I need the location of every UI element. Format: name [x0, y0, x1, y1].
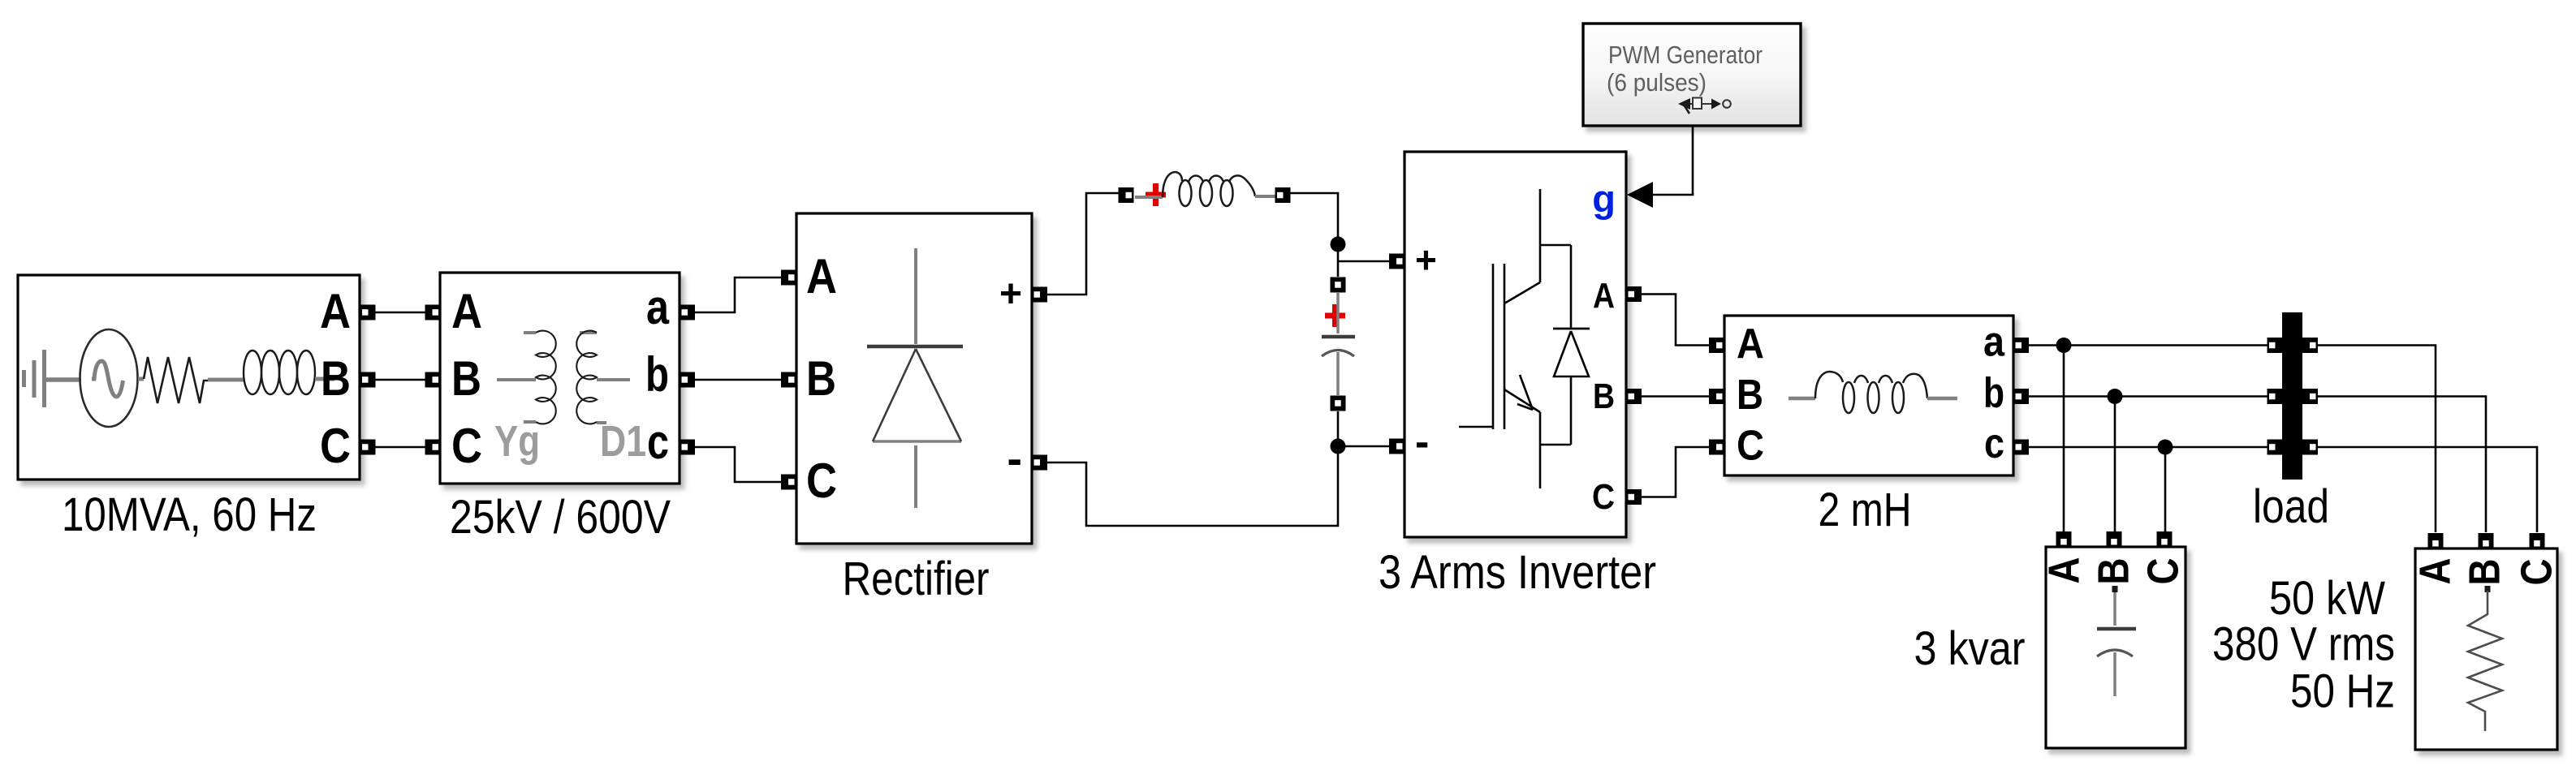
capacitor icon in 3 kvar block: [2097, 586, 2136, 696]
svg-text:+: +: [999, 273, 1022, 316]
transformer primary winding: [497, 331, 556, 424]
svg-text:C: C: [2139, 558, 2188, 585]
svg-text:b: b: [1983, 370, 2004, 417]
label 3 Arms Inverter: [1379, 546, 1656, 599]
label load: [2253, 480, 2329, 533]
load block port A: [2428, 533, 2444, 548]
bus port a left: [2267, 338, 2283, 353]
load bus bar: [2282, 312, 2302, 480]
wire phase B inverter-choke: [1642, 395, 1709, 398]
transformer label b: [645, 347, 669, 402]
source output port A: [360, 305, 376, 320]
rectifier label C: [806, 454, 837, 508]
rectifier label A: [806, 249, 837, 303]
svg-text:2 mH: 2 mH: [1819, 484, 1912, 536]
label 2 mH: [1819, 484, 1912, 536]
source port label B: [321, 351, 351, 406]
rectifier block box: [796, 213, 1032, 544]
DC bus capacitor C1: [1322, 293, 1355, 395]
label 50 Hz: [2290, 665, 2395, 718]
PWM block icon: [1678, 98, 1731, 114]
DC smoothing inductor coil: [1135, 172, 1276, 206]
capacitor measurement port bottom: [1331, 396, 1346, 411]
bus port b left: [2267, 389, 2283, 404]
3 arms inverter block box: [1405, 152, 1626, 537]
bus port c left: [2267, 440, 2283, 455]
transformer input port C: [425, 440, 441, 455]
wire rectifier + to inductor: [1047, 193, 1119, 295]
svg-text:50 Hz: 50 Hz: [2290, 665, 2395, 718]
transformer label c: [647, 415, 669, 469]
label 25kV / 600V: [450, 491, 671, 544]
svg-text:25kV / 600V: 25kV / 600V: [450, 491, 671, 544]
svg-text:B: B: [1593, 376, 1615, 416]
PWM Generator block box: [1583, 24, 1801, 126]
source port label A: [320, 284, 351, 338]
svg-text:+: +: [1415, 239, 1437, 281]
svg-text:g: g: [1592, 177, 1616, 220]
svg-text:Yg: Yg: [494, 417, 540, 466]
svg-text:b: b: [645, 347, 669, 402]
svg-text:A: A: [2040, 557, 2089, 584]
stub phase c to filter: [2164, 447, 2167, 532]
series inductor L of source impedance: [208, 351, 334, 394]
rectifier label B: [806, 351, 836, 406]
svg-text:A: A: [2411, 558, 2460, 585]
capacitor measurement port top: [1331, 277, 1346, 293]
transformer input port B: [425, 372, 441, 388]
label 3 kvar: [1914, 622, 2026, 675]
choke label B: [1737, 372, 1763, 419]
wire phase A source-transformer: [375, 312, 425, 314]
svg-text:load: load: [2253, 480, 2329, 533]
svg-text:(6 pulses): (6 pulses): [1607, 69, 1707, 97]
PWM Generator text: [1608, 41, 1763, 69]
svg-text:B: B: [2461, 559, 2509, 586]
wire inductor to DC bus corner: [1290, 193, 1338, 277]
AC voltage source symbol (ellipse + sine): [80, 329, 138, 427]
transformer label A: [451, 284, 482, 338]
inverter label +: [1415, 239, 1437, 281]
svg-text:B: B: [1737, 372, 1763, 419]
junction node phase a: [2056, 338, 2072, 353]
wire phase C source-transformer: [375, 446, 425, 449]
choke label b: [1983, 370, 2004, 417]
svg-text:3 Arms Inverter: 3 Arms Inverter: [1379, 546, 1656, 599]
load block rotated label C: [2513, 559, 2561, 586]
transformer label B: [451, 351, 481, 406]
gate arrowhead: [1627, 182, 1653, 208]
transformer label C: [451, 419, 482, 473]
wire phase a choke-load: [2029, 346, 2436, 533]
load block rotated label B: [2461, 559, 2509, 586]
inverter output port B: [1626, 389, 1642, 404]
svg-text:-: -: [1415, 419, 1429, 466]
inverter label C: [1592, 477, 1615, 517]
choke output port c: [2013, 440, 2029, 455]
svg-text:B: B: [806, 351, 836, 406]
wire phase c transformer-rectifier: [695, 447, 781, 482]
wire phase c choke-load: [2029, 447, 2537, 532]
svg-text:C: C: [1592, 477, 1615, 517]
source output port C: [360, 440, 376, 455]
inverter label B: [1593, 376, 1615, 416]
inverter input port -: [1389, 439, 1405, 454]
transformer output port c: [680, 440, 695, 455]
capacitor bank rotated label C: [2139, 558, 2188, 585]
source output port B: [360, 372, 376, 388]
bus port b right: [2302, 389, 2318, 404]
IGBT symbol inside inverter: [1459, 189, 1571, 488]
svg-text:A: A: [451, 284, 482, 338]
capacitor bank rotated label B: [2090, 558, 2138, 585]
svg-text:c: c: [1984, 420, 2004, 467]
svg-text:380 V rms: 380 V rms: [2212, 618, 2395, 671]
svg-text:a: a: [1983, 319, 2005, 366]
stub phase a to filter: [2063, 346, 2065, 533]
inverter gate label g: [1592, 177, 1616, 220]
svg-text:D1: D1: [600, 417, 646, 466]
svg-text:A: A: [806, 249, 837, 303]
choke label C: [1737, 423, 1764, 470]
wire phase b transformer-rectifier: [695, 379, 781, 381]
capacitor bank port B: [2107, 531, 2122, 547]
load block port B: [2479, 533, 2494, 548]
rectifier label -: [1007, 432, 1022, 484]
winding config label D1: [600, 417, 646, 466]
label Rectifier: [843, 553, 990, 605]
svg-text:B: B: [2090, 558, 2138, 585]
choke output port a: [2013, 338, 2029, 353]
wire phase b choke-load: [2029, 397, 2486, 533]
svg-text:C: C: [2513, 559, 2561, 586]
series inductor measurement port right: [1275, 187, 1291, 203]
wire rectifier - return rail: [1047, 446, 1338, 526]
junction node on DC- rail: [1331, 439, 1346, 454]
winding config label Yg: [494, 417, 540, 466]
rectifier label +: [999, 273, 1022, 316]
svg-text:C: C: [806, 454, 837, 508]
inverter label A: [1593, 276, 1615, 316]
svg-text:3 kvar: 3 kvar: [1914, 622, 2026, 675]
transformer output port a: [680, 305, 695, 320]
svg-text:B: B: [451, 351, 481, 406]
rectifier input port B: [781, 372, 796, 388]
svg-text:C: C: [1737, 423, 1764, 470]
choke label a: [1983, 319, 2005, 366]
red voltage-measurement + marker: [1325, 304, 1345, 327]
svg-text:C: C: [451, 419, 482, 473]
svg-text:a: a: [646, 280, 670, 334]
inverter input port +: [1389, 254, 1405, 269]
red current-measurement + marker: [1146, 183, 1166, 206]
inverter output port A: [1626, 286, 1642, 302]
junction node on DC+ rail: [1331, 237, 1346, 252]
transformer secondary winding: [576, 331, 630, 424]
wire phase C inverter-choke: [1642, 447, 1709, 497]
svg-text:A: A: [320, 284, 351, 338]
ground symbol inside source: [24, 350, 82, 407]
transformer input port A: [425, 305, 441, 320]
choke input port A: [1709, 338, 1724, 353]
svg-text:c: c: [647, 415, 669, 469]
choke output port b: [2013, 389, 2029, 404]
svg-text:Rectifier: Rectifier: [843, 553, 990, 605]
wire capacitor to DC- rail: [1337, 411, 1340, 439]
label 10MVA, 60 Hz: [62, 488, 317, 541]
load block rotated label A: [2411, 558, 2460, 585]
capacitor bank port C: [2157, 531, 2173, 547]
three-phase transformer block (25kV/600V) box: [440, 273, 680, 484]
svg-text:50 kW: 50 kW: [2269, 572, 2385, 625]
svg-text:A: A: [1593, 276, 1615, 316]
source port label C: [320, 419, 351, 473]
svg-text:B: B: [321, 351, 351, 406]
svg-text:PWM Generator: PWM Generator: [1608, 41, 1763, 69]
wire DC+ to inverter +: [1338, 260, 1389, 263]
inverter output port C: [1626, 489, 1642, 505]
svg-text:-: -: [1007, 432, 1022, 484]
junction node phase c: [2158, 440, 2173, 455]
transformer label a: [646, 280, 670, 334]
load block port C: [2530, 533, 2545, 548]
choke input port C: [1709, 440, 1724, 455]
three-phase choke block (2 mH) box: [1724, 316, 2013, 475]
rectifier input port C: [781, 475, 796, 490]
stub phase b to filter: [2114, 397, 2116, 533]
svg-text:10MVA, 60 Hz: 10MVA, 60 Hz: [62, 488, 317, 541]
resistor icon in load block: [2468, 586, 2502, 731]
antiparallel diode inside inverter: [1553, 245, 1590, 445]
capacitor bank block (3 kvar) box: [2046, 547, 2186, 748]
wire phase B source-transformer: [375, 379, 425, 381]
series resistor R of source impedance: [138, 357, 208, 403]
label 50 kW: [2269, 572, 2385, 625]
choke inductor coil icon: [1789, 372, 1957, 413]
capacitor bank rotated label A: [2040, 557, 2089, 584]
series inductor measurement port left: [1119, 187, 1134, 203]
PWM pulses text: [1607, 69, 1707, 97]
inverter label -: [1415, 419, 1429, 466]
wire DC- to inverter -: [1338, 445, 1389, 448]
rectifier diode symbol: [867, 248, 963, 508]
bus port c right: [2302, 440, 2318, 455]
choke label A: [1737, 320, 1764, 368]
label 380 V rms: [2212, 618, 2395, 671]
wire phase A inverter-choke: [1642, 295, 1709, 346]
svg-text:C: C: [320, 419, 351, 473]
bus port a right: [2302, 338, 2318, 353]
junction node phase b: [2108, 389, 2123, 404]
wire phase a transformer-rectifier: [695, 277, 781, 312]
wire PWM to inverter gate: [1653, 126, 1693, 195]
resistive load block (50 kW) box: [2415, 548, 2557, 750]
transformer output port b: [680, 372, 695, 388]
svg-text:A: A: [1737, 320, 1764, 368]
rectifier input port A: [781, 270, 796, 286]
rectifier output port +: [1032, 287, 1047, 303]
capacitor bank port A: [2056, 531, 2072, 547]
three-phase source block V1 (10MVA, 60 Hz) box: [18, 275, 360, 480]
choke label c: [1984, 420, 2004, 467]
choke input port B: [1709, 389, 1724, 404]
rectifier output port -: [1032, 455, 1047, 471]
